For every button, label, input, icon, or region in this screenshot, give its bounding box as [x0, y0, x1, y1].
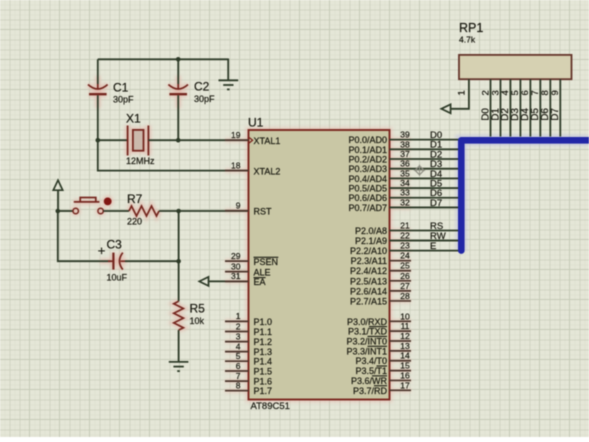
svg-text:19: 19	[231, 130, 241, 140]
svg-text:23: 23	[400, 241, 410, 251]
svg-text:12MHz: 12MHz	[126, 156, 155, 166]
svg-text:P0.3/AD3: P0.3/AD3	[348, 164, 387, 174]
RP1 pin 4 lead D2	[500, 79, 511, 136]
pin 33 P0.6/AD6 wire to bus	[390, 188, 462, 198]
svg-text:10: 10	[400, 311, 410, 321]
pin label P0.6/AD6	[348, 193, 387, 203]
svg-text:D7: D7	[430, 198, 442, 209]
pin label P3.1/TXD	[348, 327, 388, 337]
pin 12 P3.2/INT0	[390, 331, 412, 341]
pin label ALE	[254, 267, 271, 277]
svg-text:27: 27	[400, 281, 410, 291]
svg-text:ALE: ALE	[254, 267, 271, 277]
junction dot C2 top	[176, 57, 181, 62]
pin label P2.4/A12	[350, 266, 387, 276]
pin 10 P3.0/RXD	[390, 311, 412, 321]
pin 21 P2.0/A8	[390, 221, 462, 231]
svg-text:P1.3: P1.3	[254, 347, 273, 357]
svg-text:D7: D7	[550, 108, 561, 121]
resistor R5	[174, 301, 205, 330]
pin label P2.3/A11	[351, 256, 387, 266]
svg-text:P3.3/INT1: P3.3/INT1	[346, 346, 387, 356]
pin label P3.3/INT1	[346, 346, 387, 356]
pin 17 P3.7/RD	[390, 380, 412, 390]
svg-text:26: 26	[400, 271, 410, 281]
RP1 pin 8 lead D6	[540, 79, 551, 136]
RP1 pin 1 lead with arrow	[441, 79, 469, 113]
svg-text:18: 18	[231, 160, 241, 170]
RP1 pin 5 lead D3	[510, 79, 521, 136]
svg-text:4.7k: 4.7k	[459, 35, 476, 45]
crystal X1	[126, 112, 155, 167]
RP1 pin 6 lead D4	[520, 79, 531, 136]
svg-text:4: 4	[236, 341, 241, 351]
wire C1 bottom lead to crystal row	[97, 95, 99, 140]
junction node XTAL1 net	[176, 138, 181, 143]
pin 29 stub	[225, 251, 249, 261]
pin 30 stub	[225, 261, 249, 271]
wire top net (C1 top to ground)	[98, 58, 228, 60]
junction node button left	[56, 209, 61, 214]
svg-text:P3.2/INT0: P3.2/INT0	[346, 337, 387, 347]
svg-text:5: 5	[236, 351, 241, 361]
svg-text:C1: C1	[113, 81, 129, 95]
pin label P0.0/AD0	[348, 135, 387, 145]
pin label XTAL2	[254, 166, 281, 176]
capacitor C2	[168, 80, 215, 105]
svg-text:31: 31	[231, 271, 241, 281]
svg-text:12: 12	[400, 331, 410, 341]
pin 1 stub	[225, 311, 249, 321]
svg-text:P1.4: P1.4	[254, 357, 273, 367]
svg-text:30pF: 30pF	[194, 94, 215, 104]
svg-text:2: 2	[236, 321, 241, 331]
svg-text:P2.3/A11: P2.3/A11	[351, 256, 387, 266]
svg-text:29: 29	[231, 251, 241, 261]
svg-text:P2.5/A13: P2.5/A13	[350, 276, 387, 286]
svg-text:R7: R7	[127, 192, 143, 206]
pin 6 stub	[225, 361, 249, 371]
pin 32 P0.7/AD7 wire to bus	[390, 197, 462, 207]
svg-text:P0.1/AD1: P0.1/AD1	[348, 145, 387, 155]
pin label P0.4/AD4	[348, 174, 387, 184]
net label D2	[430, 149, 442, 160]
pin label P1.1	[254, 327, 273, 337]
pin 4 stub	[225, 341, 249, 351]
pin 18 stub	[225, 160, 249, 170]
svg-text:P3.5/T1: P3.5/T1	[355, 366, 387, 376]
net label D5	[430, 178, 442, 189]
wire power to button	[58, 210, 73, 212]
wire C2 top lead	[177, 59, 179, 84]
svg-text:39: 39	[400, 130, 410, 140]
svg-text:XTAL2: XTAL2	[254, 166, 281, 176]
ground (top right)	[219, 59, 239, 90]
pin 15 P3.5/T1	[390, 361, 412, 371]
pin 27 P2.6/A14	[390, 281, 412, 291]
svg-text:220: 220	[127, 217, 142, 227]
svg-text:P0.2/AD2: P0.2/AD2	[348, 154, 387, 164]
svg-text:30pF: 30pF	[113, 95, 134, 105]
svg-text:P0.6/AD6: P0.6/AD6	[348, 193, 387, 203]
pin 34 P0.5/AD5 wire to bus	[390, 178, 462, 188]
pin label RST	[254, 207, 273, 217]
svg-text:16: 16	[400, 370, 410, 380]
resistor R7	[127, 192, 159, 227]
pin label EA (overline)	[254, 277, 266, 287]
junction node crystal left	[96, 138, 101, 143]
junction node C3/R5	[176, 259, 181, 264]
svg-text:P1.2: P1.2	[254, 337, 273, 347]
svg-text:RST: RST	[254, 207, 273, 217]
pin label P2.1/A9	[355, 236, 387, 246]
pin 31 stub	[225, 271, 249, 281]
capacitor C1	[88, 81, 134, 105]
pin label P0.1/AD1	[348, 145, 387, 155]
wire junction down to R5	[178, 261, 180, 301]
pin label P2.5/A13	[350, 276, 387, 286]
net label RW	[430, 231, 446, 242]
svg-text:P2.4/A12: P2.4/A12	[350, 266, 387, 276]
svg-text:37: 37	[400, 149, 410, 159]
junction node RST/C3	[176, 209, 181, 214]
svg-text:P3.1/TXD: P3.1/TXD	[348, 327, 388, 337]
pin 7 stub	[225, 371, 249, 381]
wire C3 to junction	[125, 260, 179, 262]
pin label P2.6/A14	[350, 286, 387, 296]
svg-text:30: 30	[231, 261, 241, 271]
resistor pack RP1	[459, 21, 572, 79]
svg-text:28: 28	[400, 291, 410, 301]
bus (data bus, blue)	[461, 140, 589, 250]
pin 25 P2.4/A12	[390, 261, 412, 271]
pin label P3.7/RD	[353, 386, 388, 396]
pin label P3.2/INT0	[346, 336, 387, 346]
pin 38 P0.1/AD1 wire to bus	[390, 139, 462, 149]
svg-text:38: 38	[400, 139, 410, 149]
svg-text:R5: R5	[190, 302, 206, 316]
pin 22 P2.1/A9	[390, 231, 462, 241]
svg-text:25: 25	[400, 261, 410, 271]
svg-text:6: 6	[236, 361, 241, 371]
svg-text:P3.0/RXD: P3.0/RXD	[347, 317, 388, 327]
svg-text:P3.4/T0: P3.4/T0	[355, 356, 387, 366]
pin 28 P2.7/A15	[390, 291, 412, 301]
pin label P3.6/WR	[351, 376, 388, 386]
svg-text:P2.7/A15: P2.7/A15	[350, 296, 387, 306]
svg-text:P2.2/A10: P2.2/A10	[350, 246, 387, 256]
wire button to R7	[103, 210, 129, 212]
pin label P0.5/AD5	[348, 184, 387, 194]
pin 13 P3.3/INT1	[390, 341, 412, 351]
svg-text:33: 33	[400, 188, 410, 198]
RP1 pin 3 lead D1	[490, 79, 501, 136]
svg-text:PSEN: PSEN	[254, 257, 279, 267]
clock chevron XTAL1	[249, 137, 253, 143]
svg-text:U1: U1	[248, 116, 264, 130]
svg-text:P2.6/A14: P2.6/A14	[350, 286, 387, 296]
svg-text:X1: X1	[126, 112, 141, 126]
pin label P2.7/A15	[350, 296, 387, 306]
svg-text:32: 32	[400, 197, 410, 207]
net label D1	[430, 140, 442, 151]
net label RS	[430, 221, 443, 232]
pin 24 P2.3/A11	[390, 251, 412, 261]
pin label P0.2/AD2	[348, 154, 387, 164]
svg-text:P3.7/RD: P3.7/RD	[353, 386, 388, 396]
pin label P3.5/T1	[355, 366, 387, 376]
svg-text:RP1: RP1	[459, 21, 483, 35]
net label D4	[430, 169, 442, 180]
pin 19 stub	[225, 130, 249, 140]
svg-text:P0.7/AD7: P0.7/AD7	[348, 203, 387, 213]
pin 9 stub	[225, 201, 249, 211]
pin label P0.3/AD3	[348, 164, 387, 174]
svg-text:1: 1	[236, 311, 241, 321]
svg-text:AT89C51: AT89C51	[251, 401, 290, 412]
pin label P2.0/A8	[355, 226, 387, 236]
net label D3	[430, 159, 442, 170]
pin label P1.4	[254, 357, 273, 367]
pushbutton reset switch	[73, 198, 103, 214]
svg-text:24: 24	[400, 251, 410, 261]
net label D0	[430, 130, 442, 141]
svg-text:21: 21	[400, 221, 410, 231]
svg-text:9: 9	[236, 201, 241, 211]
svg-text:9: 9	[550, 90, 561, 95]
pin 39 P0.0/AD0 wire to bus	[390, 130, 462, 140]
svg-text:P3.6/WR: P3.6/WR	[351, 376, 388, 386]
power symbol (VCC up arrow)	[53, 180, 62, 211]
svg-text:14: 14	[400, 351, 410, 361]
svg-text:P0.4/AD4: P0.4/AD4	[348, 174, 387, 184]
svg-text:17: 17	[400, 380, 410, 390]
svg-text:P1.1: P1.1	[254, 327, 273, 337]
svg-text:P1.7: P1.7	[254, 386, 273, 396]
svg-text:1: 1	[457, 90, 468, 95]
ground (bottom)	[169, 362, 189, 371]
svg-text:11: 11	[401, 321, 410, 331]
capacitor C3 (polarized)	[98, 238, 128, 283]
svg-text:22: 22	[400, 231, 410, 241]
svg-text:P1.0: P1.0	[254, 317, 273, 327]
wire C1 top lead	[97, 59, 99, 84]
svg-text:13: 13	[400, 341, 410, 351]
origin marker diamond	[414, 165, 425, 176]
net label D6	[430, 188, 442, 199]
wire crystal left	[98, 139, 128, 141]
pin label P1.2	[254, 337, 273, 347]
svg-text:15: 15	[400, 361, 410, 371]
red state dot of button	[104, 198, 112, 206]
net label D7	[430, 198, 442, 209]
svg-text:34: 34	[400, 178, 410, 188]
RP1 pin 2 lead D0	[480, 79, 491, 136]
pin 23 P2.2/A10	[390, 241, 462, 251]
svg-text:P1.5: P1.5	[254, 367, 273, 377]
pin label P0.7/AD7	[348, 203, 387, 213]
wire C2 bottom lead	[177, 95, 179, 140]
pin 2 stub	[225, 321, 249, 331]
svg-text:10k: 10k	[190, 316, 205, 326]
wire C3 left leg	[58, 211, 111, 261]
pin label XTAL1	[254, 136, 281, 146]
wire XTAL2 (crystal-left net down and right to pin 18)	[98, 140, 249, 170]
pin 3 stub	[225, 331, 249, 341]
pin label PSEN (overline)	[254, 257, 279, 267]
svg-text:8: 8	[236, 381, 241, 391]
pin 5 stub	[225, 351, 249, 361]
svg-text:C2: C2	[194, 80, 210, 94]
svg-text:P0.0/AD0: P0.0/AD0	[348, 135, 387, 145]
pin 11 P3.1/TXD	[390, 321, 412, 331]
input arrow at EA pin 31	[199, 277, 248, 286]
svg-text:10uF: 10uF	[107, 273, 128, 283]
wire R5 to ground	[178, 330, 180, 362]
pin label P1.3	[254, 347, 273, 357]
pin label P1.0	[254, 317, 273, 327]
wire R7 to RST pin 9	[159, 210, 249, 212]
svg-text:XTAL1: XTAL1	[254, 136, 281, 146]
pin 14 P3.4/T0	[390, 351, 412, 361]
svg-text:7: 7	[236, 371, 241, 381]
pin label P1.6	[254, 377, 273, 387]
pin 35 P0.4/AD4 wire to bus	[390, 168, 462, 178]
svg-text:+: +	[98, 243, 106, 258]
svg-text:3: 3	[236, 331, 241, 341]
pin 8 stub	[225, 381, 249, 391]
svg-text:P2.1/A9: P2.1/A9	[355, 236, 387, 246]
svg-text:P2.0/A8: P2.0/A8	[355, 226, 387, 236]
pin label P3.0/RXD	[347, 317, 388, 327]
svg-text:C3: C3	[107, 238, 123, 252]
svg-text:P0.5/AD5: P0.5/AD5	[348, 184, 387, 194]
svg-text:P1.6: P1.6	[254, 377, 273, 387]
svg-text:35: 35	[400, 168, 410, 178]
pin label P2.2/A10	[350, 246, 387, 256]
wire XTAL1 (crystal right to pin 19)	[148, 139, 248, 141]
svg-text:EA: EA	[254, 277, 266, 287]
pin label P1.5	[254, 367, 273, 377]
net label E	[430, 241, 436, 252]
pin label P3.4/T0	[355, 356, 387, 366]
pin 36 P0.3/AD3 wire to bus	[390, 159, 462, 169]
svg-text:E: E	[430, 241, 436, 252]
svg-text:36: 36	[400, 159, 410, 169]
pin 26 P2.5/A13	[390, 271, 412, 281]
pin 16 P3.6/WR	[390, 370, 412, 380]
microcontroller U1 AT89C51 body	[248, 116, 390, 413]
pin label P1.7	[254, 386, 273, 396]
pin 37 P0.2/AD2 wire to bus	[390, 149, 462, 159]
RP1 pin 9 lead D7	[550, 79, 561, 136]
wire down from RST junction	[178, 211, 180, 261]
RP1 pin 7 lead D5	[530, 79, 541, 136]
